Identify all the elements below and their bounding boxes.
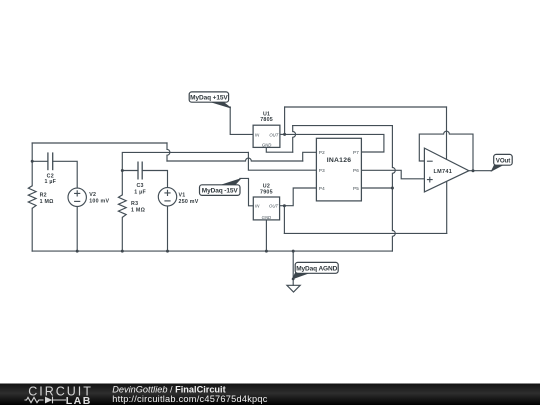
wire V2 bottom to rail — [76, 207, 78, 252]
wire AGND riser down to ground — [292, 251, 294, 285]
wire MyDaq-15V tail to U2 IN — [240, 178, 253, 205]
junction node dots — [31, 133, 475, 253]
svg-text:100 mV: 100 mV — [89, 198, 109, 204]
wire U2 OUT junction down to -V rail — [283, 206, 285, 234]
svg-text:GND: GND — [262, 143, 272, 148]
svg-text:MyDaq AGND: MyDaq AGND — [296, 265, 337, 272]
svg-text:GND: GND — [262, 215, 272, 220]
svg-text:250 mV: 250 mV — [179, 199, 199, 205]
wire U2 GND down to rail — [265, 220, 267, 251]
node flag MyDaq AGND — [292, 262, 338, 280]
ground symbol — [287, 285, 300, 292]
wire P6 to op-amp plus input — [361, 170, 424, 179]
capacitor C2 — [48, 152, 53, 170]
svg-text:P5: P5 — [353, 186, 359, 191]
wire node A down to R2 top — [31, 161, 33, 186]
op-amp LM741 — [424, 148, 469, 192]
node op-amp out — [472, 169, 475, 172]
wire +V rail across top to op-amp supply — [285, 106, 447, 108]
svg-text:V1: V1 — [179, 193, 186, 199]
wire node A up to top rail — [31, 143, 33, 161]
wire P5 to gnd net dot — [361, 187, 392, 189]
svg-text:P4: P4 — [319, 186, 325, 191]
wire op-amp output to dot and VOut — [469, 170, 492, 172]
svg-text:MyDaq -15V: MyDaq -15V — [202, 187, 239, 194]
svg-text:C3: C3 — [136, 183, 143, 189]
wire corner down with hop over L2 — [167, 143, 170, 161]
wire bottom AGND rail — [32, 250, 392, 252]
node U2 out — [283, 204, 286, 207]
wire V1 bottom to rail — [167, 206, 169, 251]
svg-text:MyDaq +15V: MyDaq +15V — [190, 95, 228, 102]
svg-text:R3: R3 — [131, 201, 138, 207]
wire L1 step up to P2 — [303, 152, 317, 161]
wire op-amp V- stub up — [446, 181, 448, 233]
instrumentation amplifier INA126 — [316, 138, 361, 201]
wire L1 to riser with hop at x=248.4 — [167, 158, 303, 161]
svg-text:R2: R2 — [40, 192, 47, 198]
wire R3 bottom to rail — [121, 217, 123, 251]
wire node B up and L2 across to riser — [122, 152, 248, 170]
node rail AGND — [292, 250, 295, 253]
wire C2 right plate to V2 top — [53, 161, 77, 188]
svg-text:1 µF: 1 µF — [134, 190, 146, 196]
wire node B to C3 left plate — [122, 170, 138, 172]
wire riser down to P3 row — [248, 152, 316, 170]
node rail V1 — [166, 250, 169, 253]
voltage source V1 — [158, 188, 176, 206]
regulator U2 7905 — [253, 184, 279, 220]
svg-text:1 MΩ: 1 MΩ — [40, 199, 55, 205]
svg-text:OUT: OUT — [269, 132, 278, 137]
regulator U1 7805 — [253, 111, 280, 147]
svg-text:P6: P6 — [353, 168, 359, 173]
voltage source V2 — [68, 188, 86, 206]
svg-text:P2: P2 — [319, 150, 325, 155]
wire U1 OUT to junction — [280, 133, 285, 135]
wire U1 GND riser up with hop over OUT wire — [293, 126, 296, 153]
resistor R2 — [28, 186, 36, 209]
svg-text:http://circuitlab.com/c457675d: http://circuitlab.com/c457675d4kpqc — [112, 394, 267, 404]
svg-text:OUT: OUT — [269, 204, 278, 209]
svg-text:P7: P7 — [353, 150, 359, 155]
footer logo squiggle — [25, 397, 67, 404]
wire op-amp V+ stub down — [446, 107, 448, 159]
wire top rail from node A to corner — [32, 142, 167, 144]
footer bar — [0, 384, 540, 405]
svg-text:7905: 7905 — [260, 190, 273, 196]
svg-text:V2: V2 — [89, 192, 96, 198]
node rail V2 — [76, 250, 79, 253]
wire gnd net across at y=125.6 — [293, 125, 393, 127]
node flag VOut — [492, 154, 513, 171]
resistor R3 — [118, 195, 126, 218]
wire R2 bottom to rail — [31, 208, 33, 251]
wire MyDaq+15V tail down to U1 IN — [230, 107, 253, 134]
wire node B down to R3 top — [121, 171, 123, 195]
node U1 out — [283, 133, 286, 136]
wire U1 GND down and right — [266, 148, 292, 153]
node flag MyDaq +15V — [189, 92, 231, 108]
wire feedback loop with hop over supply stub — [419, 131, 473, 170]
svg-text:LM741: LM741 — [433, 169, 452, 175]
wire U1 OUT junction to P7 loop — [285, 134, 384, 152]
wire node A to C2 left plate — [32, 160, 48, 162]
wire U2 OUT junction up to P4 — [284, 188, 316, 206]
node B — [121, 169, 124, 172]
wire C3 right plate to V1 top — [142, 171, 167, 188]
svg-text:LAB: LAB — [66, 395, 92, 405]
node P5 gnd — [391, 187, 394, 190]
node A — [31, 160, 34, 163]
node rail R3 — [121, 250, 124, 253]
node rail U2 gnd — [265, 250, 268, 253]
svg-text:P3: P3 — [319, 168, 325, 173]
svg-text:VOut: VOut — [496, 158, 510, 165]
wire U1 OUT junction up to +V rail — [284, 107, 286, 134]
svg-text:1 µF: 1 µF — [44, 179, 56, 185]
svg-text:INA126: INA126 — [327, 157, 352, 164]
wire U2 OUT to junction — [280, 205, 285, 207]
node flag MyDaq -15V — [200, 179, 241, 196]
svg-text:1 MΩ: 1 MΩ — [131, 208, 146, 214]
wire gnd net down right side with hops, to AGND rail — [392, 126, 395, 252]
svg-text:7805: 7805 — [260, 117, 273, 123]
capacitor C3 — [138, 162, 142, 180]
wire -V rail across to op-amp V- stub — [284, 232, 446, 234]
